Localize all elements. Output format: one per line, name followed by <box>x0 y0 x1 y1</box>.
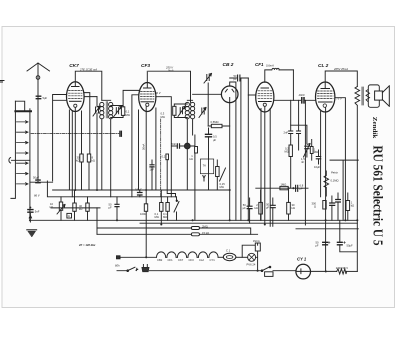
svg-text:5nF: 5nF <box>35 210 40 214</box>
svg-text:15 kΩ: 15 kΩ <box>202 231 209 235</box>
svg-text:220/240 V: 220/240 V <box>336 266 348 270</box>
svg-text:0,5: 0,5 <box>213 134 217 138</box>
svg-text:2nF: 2nF <box>284 131 289 135</box>
svg-text:MΩ: MΩ <box>163 215 167 219</box>
svg-text:kΩ: kΩ <box>189 157 192 161</box>
svg-text:kΩ: kΩ <box>292 206 295 210</box>
svg-text:μF: μF <box>243 206 247 210</box>
svg-text:Ω: Ω <box>314 204 316 208</box>
svg-text:TA: TA <box>203 164 206 168</box>
svg-text:Petrix: Petrix <box>253 239 261 243</box>
svg-text:kΩ: kΩ <box>254 206 257 210</box>
svg-text:kΩ: kΩ <box>76 159 79 163</box>
svg-text:0,5MΩ: 0,5MΩ <box>211 120 219 124</box>
svg-text:μF: μF <box>300 187 304 191</box>
svg-text:μF: μF <box>266 206 270 210</box>
svg-text:PV6 24: PV6 24 <box>247 263 256 267</box>
svg-text:MΩ: MΩ <box>126 113 130 117</box>
svg-text:ZF = 128 kHz: ZF = 128 kHz <box>78 243 96 247</box>
svg-text:75 V: 75 V <box>336 97 342 101</box>
svg-text:kΩ: kΩ <box>92 159 95 163</box>
svg-text:5nF: 5nF <box>171 142 176 146</box>
svg-text:MΩ: MΩ <box>161 115 165 119</box>
svg-text:9mA: 9mA <box>168 69 174 73</box>
svg-text:0,5μF: 0,5μF <box>135 188 142 192</box>
svg-text:MΩ: MΩ <box>155 215 159 219</box>
svg-text:CF1: CF1 <box>168 258 174 262</box>
svg-text:RU 561 Selectric U 5: RU 561 Selectric U 5 <box>369 146 384 246</box>
svg-text:Ω: Ω <box>68 214 70 218</box>
svg-text:MΩ: MΩ <box>314 150 318 154</box>
svg-text:CK7: CK7 <box>69 63 79 69</box>
svg-text:μF: μF <box>315 243 319 247</box>
svg-text:kΩ: kΩ <box>79 207 82 211</box>
svg-text:CY1: CY1 <box>210 258 216 262</box>
svg-text:nF: nF <box>301 160 304 164</box>
svg-text:CL2: CL2 <box>199 258 204 262</box>
svg-text:kΩ: kΩ <box>50 205 53 209</box>
svg-text:CF3: CF3 <box>189 258 195 262</box>
svg-text:80 V: 80 V <box>155 91 161 95</box>
svg-text:50μF: 50μF <box>33 175 40 179</box>
svg-text:MΩ: MΩ <box>220 185 224 189</box>
svg-text:50μF: 50μF <box>347 244 354 248</box>
svg-text:86 V: 86 V <box>34 194 40 198</box>
svg-text:265V 45mA: 265V 45mA <box>333 67 348 71</box>
svg-text:CB2: CB2 <box>157 258 163 262</box>
svg-text:0,1MΩ: 0,1MΩ <box>331 179 339 183</box>
svg-text:CF3: CF3 <box>141 63 150 69</box>
svg-text:μF: μF <box>109 206 113 210</box>
svg-text:0,6mA: 0,6mA <box>266 64 274 68</box>
svg-text:1MΩ: 1MΩ <box>281 182 287 186</box>
svg-text:CK7: CK7 <box>178 258 184 262</box>
svg-text:C 1: C 1 <box>226 249 231 253</box>
svg-text:CY 1: CY 1 <box>297 257 307 262</box>
svg-text:2MΩ: 2MΩ <box>202 225 208 229</box>
svg-text:27E 1C3E mA: 27E 1C3E mA <box>79 67 97 71</box>
svg-text:1nF: 1nF <box>150 168 155 172</box>
svg-text:5μF: 5μF <box>43 96 48 100</box>
svg-text:20nF: 20nF <box>298 93 305 97</box>
svg-text:kΩ: kΩ <box>351 204 354 208</box>
svg-text:μF: μF <box>213 138 217 142</box>
svg-text:MΩ: MΩ <box>285 150 289 154</box>
svg-text:CF1: CF1 <box>255 62 264 67</box>
svg-text:60h: 60h <box>115 264 120 268</box>
svg-text:CB 2: CB 2 <box>223 62 234 68</box>
svg-text:μF: μF <box>234 77 238 81</box>
svg-text:Petrix: Petrix <box>331 171 339 175</box>
svg-text:10μF: 10μF <box>314 165 321 169</box>
svg-text:CL 2: CL 2 <box>318 63 329 69</box>
svg-text:0,2: 0,2 <box>162 155 166 159</box>
svg-text:50nA: 50nA <box>142 144 146 150</box>
svg-text:100Ω: 100Ω <box>140 212 147 216</box>
svg-text:Zendik: Zendik <box>371 117 378 139</box>
